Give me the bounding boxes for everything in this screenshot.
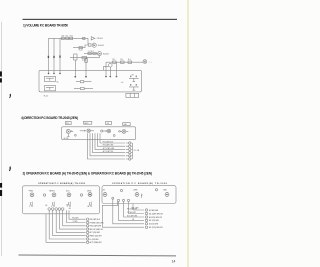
pin PB2 — [122, 199, 124, 201]
svg-text:W-2001: W-2001 — [103, 54, 109, 56]
svg-text:REV/C: REV/C — [49, 191, 55, 193]
connector label box below board right — [126, 93, 139, 97]
bottom rule — [19, 254, 177, 257]
harness A wire 2 — [66, 210, 85, 222]
pin PB3 — [127, 199, 129, 201]
svg-text:R21: R21 — [70, 35, 73, 37]
svg-text:3CC: 3CC — [66, 191, 70, 193]
svg-text:4B: 4B — [45, 205, 47, 207]
harness B pin 4 — [145, 219, 147, 221]
dir pin row6 — [126, 158, 132, 160]
svg-text:4B: 4B — [132, 219, 134, 221]
connector label 94 — [106, 122, 112, 125]
pin dot A6 — [105, 76, 107, 78]
transistor Q2 — [92, 43, 96, 47]
pin PA5 — [61, 208, 64, 211]
harness A pin 8 — [86, 241, 88, 243]
svg-text:Ba: Ba — [57, 81, 59, 83]
harness A wire 8 — [46, 214, 86, 243]
lamp symbol L1 — [109, 63, 113, 67]
wire row5 — [70, 56, 100, 58]
wire dir drop 5 — [90, 133, 125, 156]
svg-text:B2L (2CB) GRN /2W: B2L (2CB) GRN /2W — [149, 227, 163, 229]
wire right row (y62) — [106, 61, 143, 63]
svg-text:R-1: R-1 — [112, 59, 115, 61]
direction board box — [62, 127, 136, 140]
lamp L2 cluster — [119, 131, 121, 133]
pin PA2 — [51, 208, 54, 211]
harness A pin 5 — [86, 231, 88, 233]
harness A wire 4 — [59, 210, 85, 229]
dir pin row2 — [126, 145, 132, 147]
svg-text:94: 94 — [107, 123, 109, 125]
svg-text:9420: 9420 — [84, 123, 88, 125]
Q4 stem — [67, 134, 70, 137]
resistor R8 — [112, 61, 116, 63]
pin dot A3 — [59, 73, 61, 75]
relay row K1 — [76, 81, 92, 83]
harness B wire 1 — [133, 204, 144, 211]
wire jog left — [104, 66, 109, 70]
svg-text:R2: R2 — [132, 75, 134, 77]
svg-text:C20: C20 — [61, 35, 64, 37]
harness B pin 3 — [145, 216, 147, 218]
pin PA1 — [48, 208, 51, 211]
page right edge strip — [187, 0, 189, 267]
dir pin row1 — [126, 142, 132, 144]
pin PA3 — [55, 208, 58, 211]
pin PB0 — [112, 197, 114, 199]
harness A wire 5 — [56, 210, 85, 232]
svg-text:4) DIRECTION P.C BOARD TR-2045: 4) DIRECTION P.C BOARD TR-2045 (2EN) — [21, 116, 78, 120]
connector tick on V1 — [48, 56, 49, 58]
switch SW-2WD — [88, 193, 92, 197]
pin dot A1 — [48, 73, 50, 75]
svg-text:R-1: R-1 — [128, 59, 131, 61]
wire drop x116 — [116, 62, 118, 75]
svg-text:H-2C: H-2C — [44, 95, 49, 97]
board box (volume PCB) — [39, 70, 142, 92]
svg-text:≈ TR-504: ≈ TR-504 — [96, 38, 103, 40]
dir pin row3 — [126, 148, 132, 150]
switch SW-REV — [52, 193, 56, 197]
pin dot A7 — [109, 76, 111, 78]
harness A pin 2 — [86, 221, 88, 223]
harness A pin 3 — [86, 225, 88, 227]
capacitor C3 (vertical) — [74, 54, 77, 60]
switch S2 box — [45, 86, 56, 91]
pin PB1 — [117, 199, 119, 201]
capacitor C2 — [88, 52, 91, 54]
node dot n1 — [75, 134, 77, 136]
connector label 940 — [123, 123, 131, 126]
svg-text:2WK: 2WK — [133, 190, 138, 192]
node o1 — [43, 194, 45, 196]
svg-text:OPERATION P.C BOARD(A) TN: OPERATION P.C BOARD(A) TN-2050 — [38, 182, 86, 185]
wire bus1 — [49, 37, 89, 39]
harness B wire 2 — [129, 202, 145, 214]
svg-text:M·TR6: M·TR6 — [64, 138, 69, 140]
component box on V-mid2 — [85, 58, 87, 76]
svg-text:B2 (CB) GRN: B2 (CB) GRN — [149, 224, 158, 226]
svg-text:4B: 4B — [69, 208, 71, 210]
top rule — [23, 19, 178, 20]
node o4 — [155, 189, 157, 191]
node o2 — [80, 194, 82, 196]
wire dir drop 6 — [88, 133, 126, 159]
wire dir drop 2 — [98, 133, 126, 146]
svg-text:OPERATION P.C BOARD(B) TN: OPERATION P.C BOARD(B) TN-2050 — [112, 182, 168, 185]
wire drop x110 — [109, 67, 111, 75]
transistor Q1 arrow — [91, 37, 95, 40]
pin dot A2 — [53, 73, 55, 75]
resistor R4 — [83, 37, 85, 39]
harness A wire 6 — [53, 210, 86, 235]
wire vertical V2 — [53, 38, 55, 72]
node o3 — [120, 189, 122, 191]
key mark K-A4 — [89, 202, 92, 207]
scan blob 3 — [0, 183, 2, 188]
switch SW-2O — [103, 193, 107, 197]
wire dir drop 1 — [100, 133, 125, 143]
wire bus1 drop — [87, 38, 89, 45]
svg-text:B2L (CB) GRN: B2L (CB) GRN — [149, 220, 159, 222]
wire dir drop 4 — [93, 133, 126, 152]
wire vertical V3 — [59, 38, 61, 72]
svg-text:B+ (CB) RED: B+ (CB) RED — [90, 239, 100, 241]
switch S4 (T right lower) — [129, 87, 139, 90]
connector label 9C2 — [65, 122, 71, 125]
key mark K-A2 — [52, 202, 55, 207]
capacitor C22 — [82, 57, 87, 59]
harness B pin 6 — [145, 226, 147, 228]
harness B pin 2 — [145, 212, 147, 214]
harness A pin 4 — [86, 228, 88, 230]
svg-text:9C2: 9C2 — [66, 123, 69, 125]
resistor R1 — [62, 37, 65, 39]
harness A pin 6 — [86, 235, 88, 237]
key mark K-A3 — [68, 202, 71, 207]
harness A pin 1 — [86, 218, 88, 220]
harness A wire 1 — [69, 210, 86, 219]
diode D1 cluster — [80, 130, 84, 132]
comma mark 2 — [9, 166, 11, 171]
svg-text:uF: uF — [121, 82, 123, 84]
svg-text:H: H — [88, 206, 89, 208]
switch S1 box — [45, 76, 56, 81]
svg-text:FREE2 (CB) WHT: FREE2 (CB) WHT — [90, 236, 102, 238]
svg-text:940: 940 — [124, 124, 127, 126]
page left edge line — [0, 22, 2, 256]
resistor R7 — [93, 52, 96, 54]
svg-text:2WD: 2WD — [87, 191, 92, 193]
scan blob 1 — [0, 71, 2, 76]
harness B wire 5 — [113, 199, 144, 224]
wire drop x106 — [105, 62, 107, 75]
wire vertical V1 — [48, 38, 50, 72]
operation board A box — [22, 186, 99, 214]
dir pin bus — [131, 143, 133, 159]
harness A wire 7 — [49, 210, 85, 239]
svg-text:B4 (2CB) GRN /2W: B4 (2CB) GRN /2W — [149, 217, 163, 219]
pin PA4 — [58, 208, 61, 211]
resistor R3 — [70, 37, 73, 39]
switch SW-FWD — [30, 193, 34, 197]
scan blob 4 — [0, 190, 2, 196]
pin dot A5 — [85, 76, 87, 78]
resistor R5 — [88, 44, 91, 46]
wire from C3 down — [74, 60, 76, 76]
harness B wire 4 — [119, 202, 145, 221]
key mark K-B1 — [141, 194, 142, 199]
svg-text:2) OPERATION P.C BOARD (A) TR-: 2) OPERATION P.C BOARD (A) TR-2045 (2EN)… — [23, 171, 153, 175]
svg-text:14: 14 — [172, 260, 176, 264]
switch SW-3CC — [67, 193, 71, 197]
resistor R2 — [66, 37, 69, 39]
scan blob 2 — [0, 78, 2, 82]
svg-text:–·—·: –·—· — [149, 61, 153, 63]
connector pin P-right — [143, 60, 147, 64]
key mark K-A1 — [30, 202, 33, 207]
harness A wire 3 — [63, 210, 86, 226]
svg-text:P·L·2B: P·L·2B — [134, 150, 140, 152]
resistor R10 — [128, 61, 132, 63]
wire dir drop 3 — [95, 133, 125, 149]
resistor R6 — [79, 47, 83, 49]
resistor R9 — [120, 61, 124, 63]
switch SW-3KK — [165, 193, 169, 197]
connector tick on V3 — [59, 56, 60, 58]
wire row4 — [84, 53, 98, 55]
node dot n2 — [113, 135, 115, 137]
svg-text:R-1: R-1 — [120, 59, 123, 61]
connector label 9420 — [84, 121, 92, 124]
comma mark 1 — [9, 94, 11, 99]
operation board B box — [102, 186, 176, 204]
harness B pin 1 — [145, 209, 147, 211]
wire row3 — [73, 45, 88, 48]
svg-text:FWD: FWD — [29, 191, 34, 193]
transistor Q4 — [66, 129, 70, 133]
svg-text:W-4014: W-4014 — [98, 45, 104, 47]
diode D2 cluster — [101, 130, 103, 132]
svg-text:1) VOLUME P.C BOARD TR-9050: 1) VOLUME P.C BOARD TR-9050 — [23, 24, 68, 28]
relay row K2 — [74, 88, 93, 90]
switch SW-2WK — [135, 193, 139, 197]
harness B pin 5 — [145, 223, 147, 225]
harness B wire 3 — [124, 202, 145, 218]
pin dot A8 — [116, 76, 118, 78]
harness B wire 6 (jog) — [102, 202, 144, 228]
svg-text:C-22: C-22 — [82, 60, 86, 62]
pin dot A4 — [74, 76, 76, 78]
svg-text:R-20: R-20 — [79, 50, 83, 52]
harness A pin 7 — [86, 238, 88, 240]
svg-text:4B: 4B — [66, 205, 68, 207]
transistor Q3 — [98, 52, 102, 56]
svg-text:R-1: R-1 — [66, 35, 69, 37]
dir pin row5 — [126, 155, 132, 157]
connector tick on V2 — [53, 56, 54, 58]
switch S3 (T right upper) — [129, 78, 139, 81]
dir pin row4 — [126, 152, 132, 154]
